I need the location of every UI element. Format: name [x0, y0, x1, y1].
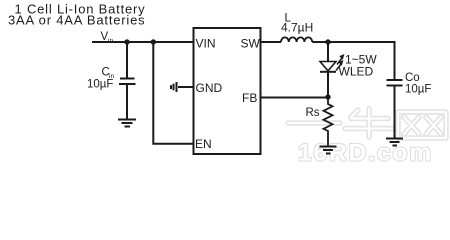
- junction: output node / LED anode: [325, 39, 330, 44]
- junction: top rail / EN loop: [151, 39, 156, 44]
- wire: GND pin stub: [178, 86, 193, 88]
- wire: inductor to output node: [312, 41, 394, 43]
- junction: FB node: [325, 94, 330, 99]
- svg-text:3AA or 4AA Batteries: 3AA or 4AA Batteries: [8, 12, 145, 27]
- ground: at GND pin (left-pointing): [171, 82, 177, 92]
- svg-text:FB: FB: [242, 91, 257, 105]
- svg-text:Rs: Rs: [306, 107, 320, 119]
- junction: top rail / C_IN: [124, 39, 129, 44]
- svg-text:4.7µH: 4.7µH: [281, 21, 313, 35]
- svg-text:16RD.com: 16RD.com: [298, 140, 433, 165]
- wire: EN loop (top rail down and right to EN pin): [153, 42, 193, 144]
- annotation: battery types note: [8, 2, 145, 28]
- resistor Rs: [324, 97, 333, 146]
- wire: LED cathode down to FB node: [327, 72, 329, 97]
- svg-text:WLED: WLED: [339, 65, 374, 79]
- wire: input top rail to VIN pin: [92, 41, 193, 43]
- wire: SW pin to inductor: [261, 41, 281, 43]
- svg-text:EN: EN: [195, 137, 212, 151]
- wire: output node down to Co: [394, 41, 396, 79]
- watermark (decorative, drawn first so it sits behind): [288, 109, 446, 167]
- svg-text:10µF: 10µF: [405, 84, 431, 96]
- svg-text:Co: Co: [405, 72, 420, 84]
- inductor L1: [281, 37, 312, 42]
- capacitor Co: [387, 80, 403, 138]
- label C_IN: [102, 67, 115, 81]
- svg-text:VIN: VIN: [196, 37, 216, 51]
- capacitor C_IN: [119, 42, 136, 119]
- IC U1 (boost driver) box: [194, 28, 261, 154]
- ground: below Rs: [320, 147, 337, 154]
- LED D1 (WLED): [320, 42, 344, 72]
- node VIN (input) label: [101, 31, 114, 45]
- wire: FB pin to FB node: [261, 97, 328, 99]
- svg-text:SW: SW: [241, 37, 261, 51]
- svg-text:10µF: 10µF: [87, 79, 113, 91]
- ground: below Co: [386, 139, 403, 146]
- svg-text:GND: GND: [196, 81, 223, 95]
- ground: below C_IN: [118, 120, 136, 127]
